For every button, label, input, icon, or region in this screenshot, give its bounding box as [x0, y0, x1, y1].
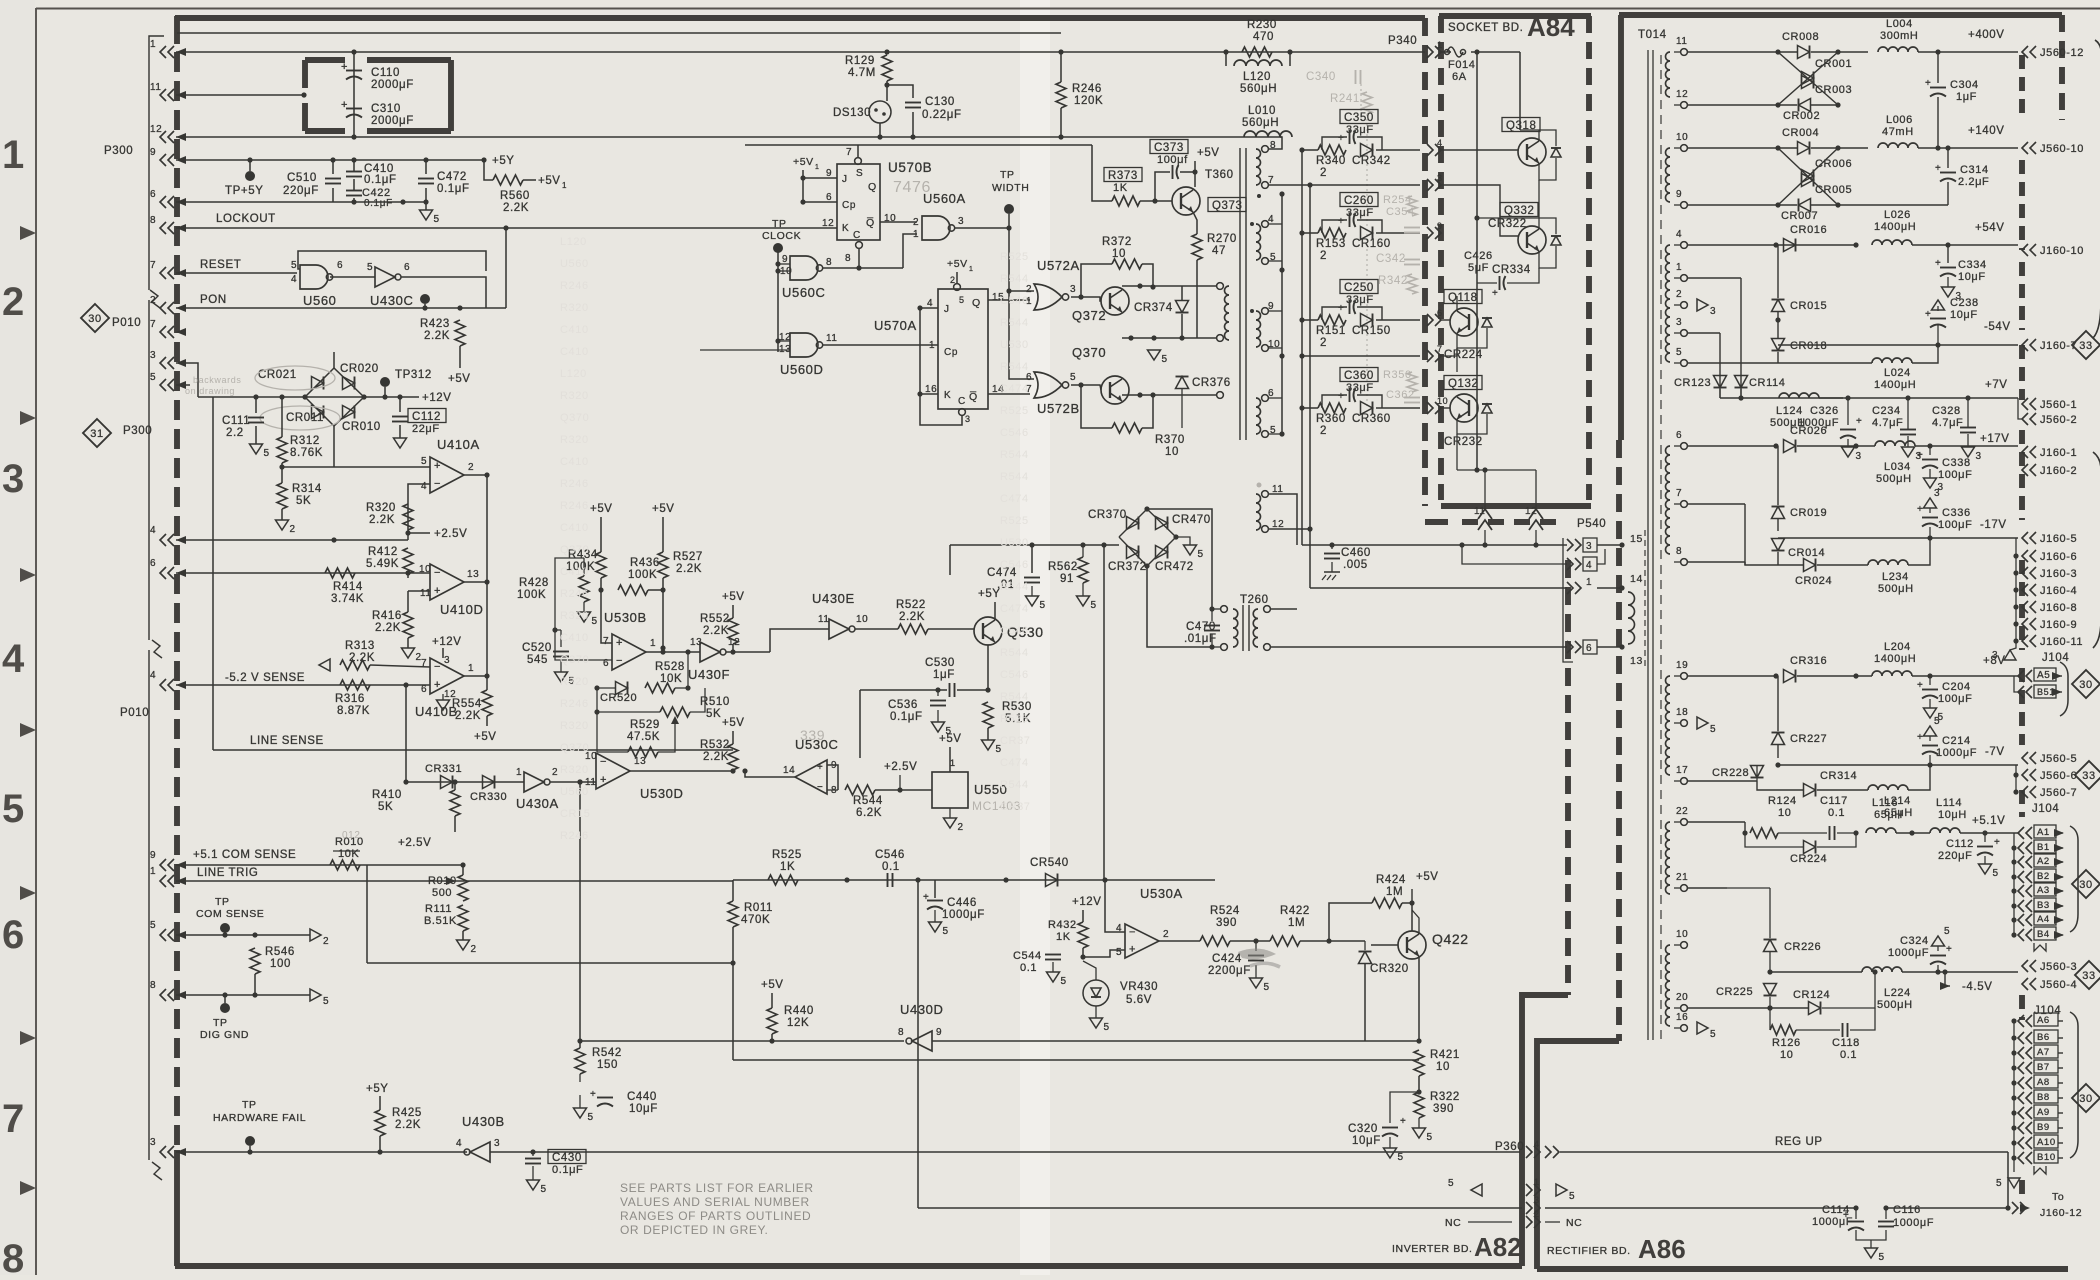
diode CR015 — [1772, 300, 1828, 313]
svg-text:CR320: CR320 — [1370, 963, 1409, 975]
wire r434 low — [600, 578, 602, 590]
node p4 — [1773, 242, 1778, 247]
svg-text:1: 1 — [815, 164, 820, 171]
svg-text:1M: 1M — [1288, 917, 1305, 929]
connector P300 bracket — [149, 36, 164, 290]
nand gate U560C — [780, 254, 832, 300]
op-amp U530C left — [783, 737, 838, 796]
svg-text:1: 1 — [950, 758, 956, 768]
svg-text:T360: T360 — [1205, 169, 1234, 181]
svg-text:1: 1 — [562, 181, 567, 190]
bracket J560 group — [2093, 40, 2100, 338]
wire R246 low — [1060, 108, 1062, 137]
node j560-6 — [2013, 772, 2018, 777]
svg-text:2: 2 — [552, 767, 558, 778]
rectifier board A86 top border — [1619, 12, 2062, 18]
wire regup — [1560, 1151, 2008, 1153]
svg-text:U560: U560 — [303, 293, 336, 308]
wire r373 vert — [1092, 145, 1112, 201]
svg-text:C546: C546 — [1000, 625, 1029, 637]
svg-text:2: 2 — [958, 822, 964, 833]
svg-text:9: 9 — [150, 147, 156, 158]
svg-text:11: 11 — [826, 333, 838, 344]
connector edge dash bar — [2019, 160, 2025, 250]
svg-text:Q132: Q132 — [1448, 378, 1479, 390]
svg-text:10: 10 — [856, 614, 868, 625]
diode CR330 — [470, 776, 507, 804]
wire c334 b — [1947, 277, 1949, 287]
svg-text:3: 3 — [1070, 284, 1076, 295]
svg-text:100μF: 100μF — [1938, 519, 1972, 531]
wire c314 v — [1947, 148, 1949, 168]
connector J160-2 — [2022, 464, 2077, 477]
svg-text:U570B: U570B — [888, 160, 932, 175]
node p10 — [1775, 145, 1780, 150]
node cap common2 — [400, 199, 405, 204]
svg-text:3: 3 — [1710, 306, 1716, 317]
ground C320 — [1384, 1148, 1404, 1163]
transformer T360 core — [1240, 148, 1246, 440]
svg-text:C426: C426 — [1464, 250, 1493, 262]
transistor Q422 — [1398, 931, 1469, 959]
svg-text:CR003: CR003 — [1815, 84, 1852, 96]
capacitor C234 — [1872, 405, 1916, 435]
wire q118 top — [1456, 296, 1458, 311]
IC U570A — [925, 275, 1004, 424]
connector J160-1 — [2022, 446, 2077, 459]
capacitor C204 — [1917, 680, 1972, 705]
svg-text:R153: R153 — [1316, 238, 1346, 250]
svg-text:C410: C410 — [560, 346, 589, 358]
wire c112b v — [1984, 833, 1986, 842]
wire fb l3 — [596, 688, 598, 712]
P300 pin 11 — [150, 82, 186, 101]
wire r436 r — [648, 589, 663, 591]
svg-text:R525: R525 — [1000, 251, 1029, 263]
wire p540 bracket — [1563, 538, 1573, 662]
wire c234 v — [1907, 398, 1909, 429]
svg-text:5: 5 — [541, 1184, 547, 1195]
wire fb l4 — [596, 712, 598, 752]
svg-text:+: + — [341, 61, 348, 73]
wire r527 low — [662, 578, 664, 648]
svg-text:220μF: 220μF — [1938, 850, 1972, 862]
svg-text:0.1μF: 0.1μF — [437, 183, 470, 195]
wire cr024 link — [1817, 564, 1868, 566]
node J104 B8 — [2011, 1095, 2016, 1100]
svg-text:470K: 470K — [741, 914, 770, 926]
svg-text:R246: R246 — [1072, 83, 1102, 95]
wire q332 col — [1538, 218, 1540, 229]
wire c324 v — [1937, 946, 1939, 951]
connector J160-11 — [2022, 635, 2083, 648]
svg-text:2.2K: 2.2K — [899, 611, 925, 623]
neon lamp DS130 — [833, 101, 891, 123]
capacitor C310 label — [371, 103, 414, 127]
resistor R552 — [700, 613, 738, 644]
inductor L214 — [1868, 785, 1913, 819]
svg-text:17: 17 — [1676, 765, 1688, 776]
capacitor C470 — [1184, 621, 1220, 645]
svg-text:390: 390 — [1216, 917, 1237, 929]
svg-text:C424: C424 — [1212, 953, 1242, 965]
capacitor C430 boxed — [525, 1150, 586, 1177]
capacitor C544 — [1013, 950, 1061, 974]
svg-text:P360: P360 — [1495, 1141, 1524, 1153]
grey ghost C342/R342 — [1376, 253, 1420, 294]
connector ground squiggle 1 — [150, 290, 160, 308]
svg-text:C117: C117 — [1820, 795, 1848, 807]
wire bridge to pin4 — [333, 467, 335, 540]
svg-text:−: − — [616, 655, 623, 667]
ground C536 — [932, 722, 952, 737]
inverter board A82 left dashed edge — [174, 52, 180, 1150]
svg-text:J160-10: J160-10 — [2040, 245, 2084, 257]
svg-text:C304: C304 — [1950, 79, 1979, 91]
wire q422 c2 — [1411, 903, 1413, 934]
svg-text:1K: 1K — [780, 861, 795, 873]
wire bridge top — [333, 352, 335, 368]
svg-text:R370: R370 — [1155, 434, 1185, 446]
svg-text:6.2K: 6.2K — [856, 807, 882, 819]
wire c424 lo — [1255, 965, 1257, 978]
wire r424 r — [1402, 903, 1412, 931]
node u530b out2 — [685, 649, 690, 654]
node cap common3 — [423, 199, 428, 204]
wire p19 row — [1688, 675, 1776, 677]
inductor L124 — [1770, 393, 1819, 429]
svg-text:L120: L120 — [1243, 71, 1271, 83]
svg-text:B2: B2 — [2037, 871, 2050, 882]
svg-text:+: + — [1917, 732, 1923, 743]
node c324 t — [1935, 969, 1940, 974]
svg-text:6: 6 — [1437, 308, 1443, 318]
svg-text:C546: C546 — [875, 849, 905, 861]
svg-text:NC: NC — [1445, 1217, 1461, 1229]
svg-text:RESET: RESET — [200, 259, 241, 271]
node c372 — [1137, 283, 1142, 288]
wire cr227 b — [1777, 745, 1779, 758]
wire q318 links — [1539, 158, 1556, 180]
svg-text:10μF: 10μF — [1958, 271, 1986, 283]
P010 pin 6 — [150, 558, 186, 579]
T014 pin16 arrow — [1697, 1022, 1716, 1040]
svg-text:+: + — [1338, 133, 1344, 144]
LINE TRIG label — [197, 867, 258, 879]
L234 text — [1878, 571, 1914, 595]
svg-text:CLOCK: CLOCK — [762, 230, 801, 242]
node r527 — [660, 645, 665, 650]
wire p540-12 v — [1535, 470, 1537, 509]
inductor L116 — [1866, 797, 1903, 833]
transistor Q373 — [1172, 187, 1246, 215]
svg-text:30: 30 — [2079, 879, 2092, 891]
node pin5 a — [222, 932, 227, 937]
connector J104 A8 — [2018, 1075, 2063, 1089]
row label 4 — [2, 637, 25, 681]
P340 pin 10 — [1427, 396, 1448, 414]
svg-text:6: 6 — [337, 260, 343, 271]
node cr002 out — [1835, 102, 1840, 107]
svg-text:CR316: CR316 — [1790, 655, 1827, 667]
connector J560-12 — [2022, 46, 2084, 59]
wire q318 col — [1520, 130, 1539, 141]
diode CR226 — [1764, 940, 1822, 954]
+5V rail label — [492, 155, 515, 167]
ground J160 stack — [1992, 650, 2016, 661]
wire u430e in — [770, 629, 829, 652]
svg-text:U530D: U530D — [640, 786, 683, 801]
node p5402 — [1482, 542, 1487, 547]
connector J104 B7 — [2018, 1060, 2063, 1074]
svg-text:+5V: +5V — [939, 733, 962, 745]
diamond 30 — [81, 304, 109, 332]
svg-text:C474: C474 — [1000, 383, 1029, 395]
P340 pin 1 — [1427, 40, 1443, 58]
svg-text:1000μF: 1000μF — [1936, 747, 1977, 759]
wire u570a pwr — [956, 272, 958, 284]
wire r010 500 — [462, 869, 464, 875]
node em3 — [1151, 335, 1156, 340]
svg-text:5: 5 — [1104, 1022, 1110, 1033]
svg-text:−: − — [1129, 927, 1136, 939]
svg-text:5: 5 — [1264, 982, 1270, 993]
svg-text:+: + — [923, 892, 929, 903]
diode CR124 — [1793, 989, 1830, 1015]
diode CR024 — [1795, 559, 1832, 588]
+5V Q422 — [1416, 871, 1439, 883]
wire c373 right — [1180, 171, 1195, 173]
node J104 A2 — [2011, 859, 2016, 864]
wire tap12 out — [1268, 528, 1310, 530]
inverter U430F — [688, 637, 740, 682]
svg-text:U410A: U410A — [437, 437, 480, 452]
svg-text:R414: R414 — [333, 581, 363, 593]
resistor R434 — [566, 549, 606, 578]
svg-text:U430F: U430F — [688, 667, 730, 682]
svg-text:2: 2 — [1320, 250, 1327, 262]
svg-text:+: + — [434, 679, 441, 691]
wire r370 in — [1081, 385, 1112, 428]
node u530b out — [660, 649, 665, 654]
svg-text:R320: R320 — [560, 434, 589, 446]
wire R246 top — [1060, 52, 1062, 82]
wire c326 v — [1847, 398, 1849, 425]
svg-text:C328: C328 — [1932, 405, 1961, 417]
handwriting 339 — [800, 727, 825, 743]
wire -54 row — [1778, 344, 2018, 346]
svg-text:9: 9 — [1437, 221, 1443, 231]
node c314 t — [1945, 145, 1950, 150]
wire p540-12 v2 — [1535, 530, 1537, 545]
wire p8 link — [1745, 562, 1803, 565]
svg-text:C410: C410 — [560, 566, 589, 578]
svg-text:R528: R528 — [655, 661, 685, 673]
svg-text:R544: R544 — [853, 795, 883, 807]
wire regup to bus — [2008, 1187, 2014, 1189]
resistor R316 — [335, 680, 370, 717]
connector J160-3 — [2022, 567, 2077, 580]
wire r270 low — [1196, 260, 1198, 338]
wire U560 feedback — [298, 251, 486, 271]
wire tpwidth v2 — [1009, 291, 1034, 379]
svg-text:8.76K: 8.76K — [290, 447, 323, 459]
svg-text:5: 5 — [150, 920, 156, 931]
wire l214 out — [1908, 765, 1930, 790]
svg-text:R124: R124 — [1768, 795, 1797, 807]
svg-text:+5Y: +5Y — [366, 1083, 389, 1095]
svg-text:R316: R316 — [335, 693, 365, 705]
svg-text:9: 9 — [936, 1027, 942, 1038]
wire u530c pin8 wire — [827, 789, 838, 791]
svg-text:Q422: Q422 — [1432, 931, 1469, 947]
wire 2.5 stub — [408, 532, 430, 534]
C110 outline box top2 — [367, 57, 451, 63]
wire RESET — [176, 272, 297, 274]
svg-text:+7V: +7V — [1985, 379, 2008, 391]
wire r522 out — [928, 628, 974, 630]
wire j560 stack bus2 — [2015, 765, 2017, 792]
node br2 — [279, 394, 284, 399]
ground R314 — [276, 520, 296, 535]
svg-text:10μF: 10μF — [629, 1103, 658, 1115]
P360 pin 4 — [1526, 1139, 1559, 1158]
svg-text:2200μF: 2200μF — [1208, 965, 1251, 977]
wire q373 vcc — [1194, 161, 1196, 187]
svg-text:.005: .005 — [1343, 559, 1368, 571]
svg-text:2000μF: 2000μF — [371, 115, 414, 127]
wire c116 v — [1885, 1208, 1887, 1219]
wire cr002 out — [1811, 104, 1838, 106]
svg-text:L116: L116 — [1872, 797, 1898, 809]
diode bridge CR472 — [1147, 537, 1194, 573]
capacitor C410 — [346, 163, 397, 186]
wire prim tap2 — [1216, 337, 1217, 339]
wire r542 b — [579, 1074, 581, 1082]
node r010 top — [460, 862, 465, 867]
handwriting backwards — [185, 375, 241, 396]
svg-text:13: 13 — [690, 637, 702, 648]
open arrow 5 — [310, 989, 329, 1007]
svg-text:R340: R340 — [1316, 155, 1346, 167]
svg-text:+2.5V: +2.5V — [884, 761, 917, 773]
wire p4 row — [1688, 244, 1856, 246]
svg-text:U530: U530 — [1000, 537, 1029, 549]
T014 winding 4-5 — [1666, 229, 1688, 366]
nand gate U560 — [291, 260, 343, 308]
svg-text:Q̅: Q̅ — [866, 217, 875, 229]
svg-text:R230: R230 — [1247, 19, 1277, 31]
svg-text:CR114: CR114 — [1749, 377, 1785, 389]
resistor R314 — [277, 483, 322, 509]
op-amp U530B — [603, 610, 656, 670]
svg-text:5: 5 — [1676, 347, 1682, 358]
capacitor C328 — [1932, 405, 1976, 433]
node br3 — [302, 394, 307, 399]
svg-text:−: − — [600, 756, 607, 768]
svg-text:CR014: CR014 — [1788, 547, 1825, 559]
svg-text:+5V: +5V — [1197, 147, 1220, 159]
diode CR021 — [258, 368, 334, 397]
svg-text:C238: C238 — [1950, 297, 1979, 309]
wire l034 out — [1915, 445, 2018, 447]
svg-text:2: 2 — [2, 280, 24, 324]
capacitor C111 — [222, 415, 264, 439]
wire R410 low — [454, 816, 456, 832]
svg-text:2: 2 — [1163, 929, 1169, 940]
wire p18 link — [1688, 722, 1757, 724]
wire cr228 v — [1756, 723, 1758, 765]
svg-text:C: C — [853, 230, 861, 241]
svg-text:2: 2 — [1320, 167, 1327, 179]
node u530c link — [730, 768, 735, 773]
row label 6 — [2, 913, 24, 957]
svg-text:A1: A1 — [2037, 827, 2050, 838]
svg-text:CR005: CR005 — [1815, 184, 1852, 196]
wire q373 emit — [1193, 212, 1197, 234]
wire tap7 to P340-3 — [1310, 184, 1420, 186]
svg-text:10: 10 — [1676, 132, 1688, 143]
ground R416 — [402, 648, 422, 663]
diode CR224 label — [1444, 349, 1483, 361]
wire t260 s2 — [1270, 646, 1567, 648]
svg-text:6: 6 — [826, 192, 832, 203]
wire t260 s1 — [1270, 608, 1297, 610]
wire c304 v — [1937, 52, 1939, 83]
svg-text:545: 545 — [527, 654, 548, 666]
node pin4 join — [331, 537, 336, 542]
svg-text:1: 1 — [1534, 1177, 1540, 1187]
resistor R373 boxed — [1104, 168, 1142, 207]
svg-text:2.2K: 2.2K — [676, 563, 702, 575]
test point TP DIG GND — [200, 995, 249, 1041]
svg-text:J560-6: J560-6 — [2040, 770, 2077, 782]
+2.5V label — [434, 528, 467, 540]
connector J160-5 — [2022, 532, 2077, 545]
node c114 — [1853, 1205, 1858, 1210]
diode CR316 — [1784, 655, 1828, 683]
svg-text:Cp: Cp — [944, 347, 958, 358]
transistor Q530 — [974, 617, 1044, 645]
transistor Q370 — [1072, 345, 1129, 404]
svg-text:4: 4 — [150, 670, 156, 681]
LOCKOUT net label — [216, 213, 276, 225]
svg-text:U560: U560 — [560, 258, 589, 270]
wire cr224 byp r — [1817, 833, 1856, 847]
node r129 top — [884, 49, 889, 54]
svg-text:100μF: 100μF — [1938, 469, 1972, 481]
transformer T014 core — [1648, 50, 1653, 1040]
svg-text:CR224: CR224 — [1444, 349, 1483, 361]
svg-text:DIG GND: DIG GND — [200, 1029, 249, 1041]
svg-text:+2.5V: +2.5V — [398, 837, 431, 849]
connector ground squiggle 2 — [152, 640, 162, 658]
resistor R230 — [1242, 19, 1277, 57]
wire c530 wire — [860, 689, 947, 691]
node br5 — [382, 394, 387, 399]
wire r428 top — [555, 560, 584, 576]
svg-text:0.1μF: 0.1μF — [552, 1164, 583, 1176]
svg-text:12K: 12K — [787, 1017, 809, 1029]
svg-text:U430A: U430A — [516, 796, 559, 811]
inductor P540 winding — [1628, 592, 1635, 644]
+5V1 label — [538, 175, 567, 190]
svg-text:J160-2: J160-2 — [2040, 465, 2077, 477]
wire pin4b row — [176, 684, 430, 686]
svg-text:10μF: 10μF — [1352, 1135, 1381, 1147]
wire r316 drop — [405, 685, 407, 782]
wire c520 link — [555, 629, 561, 631]
